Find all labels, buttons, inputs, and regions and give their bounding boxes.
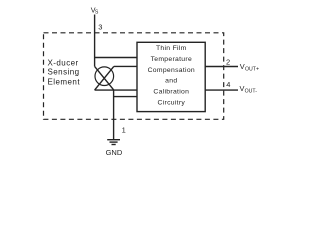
svg-text:S: S — [95, 10, 99, 16]
svg-text:Temperature: Temperature — [151, 56, 192, 63]
svg-text:3: 3 — [98, 22, 102, 31]
svg-text:4: 4 — [226, 80, 230, 89]
svg-text:Circuitry: Circuitry — [157, 100, 185, 107]
svg-text:and: and — [165, 78, 177, 85]
svg-text:OUT+: OUT+ — [245, 67, 259, 73]
svg-text:X-ducer: X-ducer — [48, 58, 79, 67]
svg-text:1: 1 — [122, 126, 126, 135]
svg-text:Calibration: Calibration — [153, 89, 189, 96]
svg-text:OUT-: OUT- — [245, 89, 258, 95]
svg-text:2: 2 — [226, 58, 230, 67]
svg-text:Thin Film: Thin Film — [156, 45, 187, 52]
svg-text:Compensation: Compensation — [148, 67, 195, 74]
svg-text:GND: GND — [106, 148, 123, 157]
svg-text:Sensing: Sensing — [48, 68, 80, 77]
svg-text:Element: Element — [48, 77, 81, 86]
